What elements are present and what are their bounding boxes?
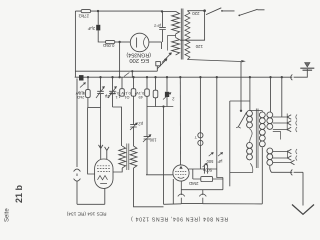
tube U1 anode arc: [144, 37, 146, 48]
transformer T1 secondary: [185, 11, 190, 60]
resistor R8: [201, 177, 213, 182]
spark gap G1: [74, 169, 81, 171]
switch arm S3: [206, 8, 235, 15]
trimmer arrow: [96, 87, 105, 99]
resistor R7: [155, 77, 157, 90]
wire: [104, 188, 106, 204]
switch arrow S2: [158, 59, 168, 69]
svg-text:2µ: 2µ: [104, 94, 109, 99]
wire: [113, 107, 122, 146]
wire: [217, 169, 223, 178]
resistor R4: [121, 77, 123, 89]
node C: [203, 9, 206, 12]
value: [110, 91, 120, 100]
wire loop: [229, 101, 231, 186]
svg-text:Ω1: Ω1: [124, 95, 130, 100]
node E: [240, 110, 242, 112]
wire: [261, 147, 263, 204]
tube U2 RES164 envelope: [95, 159, 113, 188]
node: [166, 76, 168, 78]
node: [154, 76, 156, 78]
svg-text:Seite: Seite: [5, 208, 11, 222]
wire: [164, 203, 182, 206]
wire: [149, 41, 162, 43]
node B: [118, 41, 120, 43]
connector box: [156, 62, 161, 66]
node: [199, 76, 201, 78]
wire: [115, 41, 131, 43]
transformer T1 primary upper: [172, 11, 180, 34]
wire: [162, 10, 176, 12]
svg-text:21 b: 21 b: [14, 184, 24, 203]
tube U3 REN804 envelope: [173, 165, 189, 181]
transformer T1 core: [181, 9, 183, 60]
wire: [187, 60, 241, 62]
tube U2 grids: [97, 166, 111, 172]
resistor R6: [146, 77, 148, 89]
capacitor C8: [130, 125, 137, 146]
arrow to mains: [292, 205, 314, 215]
transformer T3 core: [256, 109, 258, 169]
transformer T3 winding C upper: [267, 112, 273, 129]
capacitor C3: [79, 75, 84, 80]
node: [118, 76, 120, 78]
tube U2 filament: [98, 176, 108, 184]
capacitor C2: [159, 26, 166, 42]
ground symbol: [300, 68, 314, 70]
wire: [187, 10, 204, 12]
plug contacts: [296, 115, 297, 133]
svg-text:REN 804 (REN 904, RENS 1204 ): REN 804 (REN 904, RENS 1204 ): [130, 216, 228, 222]
transformer T1 primary lower: [172, 38, 180, 56]
svg-text:27kΩ: 27kΩ: [78, 13, 89, 18]
wire: [250, 77, 262, 110]
wire: [250, 163, 253, 172]
svg-text:2kΩ: 2kΩ: [77, 95, 84, 100]
wire: [273, 132, 281, 140]
node: [111, 76, 113, 78]
tube U3 grid: [175, 172, 187, 175]
capacitor C1: [96, 25, 100, 31]
tube U3 cathode: [178, 177, 184, 178]
plug connector: [291, 170, 293, 176]
wire: [113, 168, 122, 172]
svg-text:µ2: µ2: [138, 122, 143, 127]
node: [179, 76, 181, 78]
wire tap 120: [180, 11, 205, 41]
node: [216, 76, 218, 78]
wire: [179, 77, 181, 165]
fuse F1: [198, 133, 203, 138]
wire: [302, 172, 304, 205]
trimmer arrow: [218, 152, 223, 156]
tube U1 EG200 envelope: [130, 33, 149, 52]
node A: [97, 10, 99, 12]
wire: [163, 107, 165, 205]
capacitor C9: [204, 164, 207, 173]
wire: [192, 169, 194, 179]
wire: [270, 166, 293, 172]
node: [80, 76, 82, 78]
wire: [261, 111, 263, 113]
svg-text:2MΩ: 2MΩ: [188, 181, 198, 186]
wire: [250, 129, 253, 143]
wire: [100, 108, 102, 149]
socket pin P2: [199, 190, 206, 204]
resistor R2: [105, 40, 114, 43]
page number Seite 21 b: [5, 184, 25, 222]
svg-text:49: 49: [138, 95, 143, 100]
transformer T3 winding A upper: [247, 111, 253, 128]
svg-text:0,05Ω: 0,05Ω: [103, 43, 114, 48]
value: [75, 91, 85, 100]
transformer T2 winding L1: [119, 146, 126, 168]
plug connector: [291, 74, 293, 80]
transformer T3 winding B: [259, 112, 265, 147]
trimmer arrow: [80, 83, 86, 88]
socket pin P1: [178, 181, 185, 204]
switch arrow S1: [162, 53, 172, 63]
resistor R3: [87, 77, 89, 89]
svg-text:2µF: 2µF: [87, 26, 95, 31]
transformer T2 winding L2: [130, 146, 137, 168]
wire: [75, 70, 157, 72]
trimmer arrow: [209, 152, 214, 156]
svg-text:µF2: µF2: [153, 24, 161, 29]
wire loop: [230, 100, 250, 102]
wire loop: [230, 172, 253, 174]
wire: [189, 168, 217, 170]
trimmer arrow: [130, 123, 138, 130]
wire: [240, 62, 242, 111]
svg-text:500µ: 500µ: [202, 168, 212, 173]
wire: [216, 77, 218, 169]
tube U3 anode: [179, 166, 182, 169]
wire: [74, 11, 76, 77]
svg-text:120: 120: [195, 44, 203, 49]
wire: [161, 42, 163, 49]
tap contacts lower: [273, 149, 292, 153]
svg-text:100: 100: [149, 138, 157, 143]
switch arm S5: [238, 112, 246, 127]
wire: [131, 71, 133, 77]
wire: [88, 107, 101, 109]
node D: [162, 105, 164, 107]
wire: [281, 77, 283, 117]
trimmer arrow: [203, 163, 208, 167]
node: [132, 76, 134, 78]
wire: [146, 174, 173, 176]
tap contacts upper: [273, 115, 291, 119]
tube U2 pin 1: [99, 145, 103, 159]
wire: [76, 79, 78, 168]
value: [121, 91, 131, 100]
switch arm S4: [239, 9, 264, 15]
wire: [270, 77, 272, 112]
node: [99, 76, 101, 78]
wire bus: [75, 76, 293, 78]
svg-text:(RGN354): (RGN354): [126, 51, 151, 57]
node: [269, 76, 271, 78]
svg-text:EG 200: EG 200: [129, 57, 149, 63]
wire: [88, 108, 95, 175]
capacitor C7: [144, 107, 151, 175]
capacitor C5: [109, 77, 116, 107]
wire: [98, 30, 105, 42]
tube U1 cathode bar: [136, 38, 138, 48]
wire: [172, 179, 174, 204]
wire: [203, 203, 262, 205]
wire: [134, 168, 164, 207]
transformer T2 core: [127, 144, 129, 171]
node: [281, 76, 283, 78]
wire: [100, 145, 102, 148]
wire: [222, 178, 224, 190]
wire: [147, 106, 173, 108]
wire: [77, 203, 105, 205]
label EG 200 (RGN354): [126, 51, 151, 63]
node: [87, 76, 89, 78]
node: [249, 76, 251, 78]
wire: [156, 66, 158, 71]
capacitor C6: [166, 77, 168, 92]
wire tap: [168, 34, 176, 51]
svg-text:220: 220: [192, 11, 200, 16]
wire: [199, 77, 201, 169]
plug contacts: [296, 149, 297, 161]
node: [146, 76, 148, 78]
trimmer arrow: [108, 87, 117, 99]
wire: [119, 42, 121, 77]
resistor R5: [133, 77, 135, 89]
value: [135, 91, 145, 100]
transformer T3 winding A lower: [247, 143, 253, 160]
wire: [97, 11, 99, 25]
trimmer arrow: [163, 93, 171, 100]
wire: [181, 203, 203, 205]
capacitor C4: [97, 77, 104, 107]
wire: [124, 73, 129, 77]
trimmer arrow: [143, 135, 151, 143]
svg-text:RES 164 (RE 134): RES 164 (RE 134): [66, 211, 106, 217]
wire: [98, 11, 163, 26]
svg-text:µF: µF: [217, 159, 222, 164]
transformer T3 winding C lower: [267, 148, 273, 165]
tube U2 pin 2: [105, 147, 109, 159]
wire: [181, 189, 223, 191]
wire: [294, 69, 308, 77]
resistor R1: [81, 10, 91, 13]
